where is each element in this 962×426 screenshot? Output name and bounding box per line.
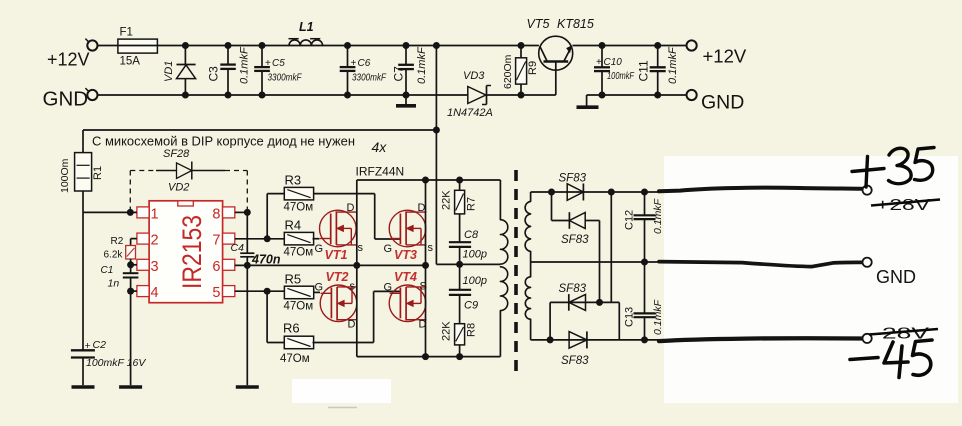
label SF83 D3 (559, 283, 587, 295)
svg-text:D: D (348, 319, 356, 331)
pin 8 box (223, 207, 235, 218)
label VT3 D (418, 202, 426, 214)
label C8 value (463, 248, 487, 260)
terminal GND out (863, 258, 872, 267)
junction C7 top (403, 42, 410, 49)
capacitor C5 (254, 46, 270, 96)
label R3 (285, 173, 302, 188)
svg-text:GND: GND (876, 267, 916, 287)
label C11 value (667, 46, 679, 84)
label R5 (285, 272, 302, 287)
label R9 (527, 61, 539, 75)
capacitor C6 (340, 46, 356, 96)
capacitor C4 (240, 212, 254, 265)
svg-text:SF83: SF83 (559, 173, 587, 185)
label L1 (299, 20, 314, 34)
diode D4 SF83 (569, 331, 587, 348)
svg-text:470n: 470n (251, 253, 281, 267)
svg-text:C4: C4 (231, 242, 245, 254)
wire pin1 to R1 column (83, 211, 137, 213)
label R6 (283, 321, 300, 336)
wire D3 left drop (549, 302, 551, 340)
svg-text:4: 4 (151, 285, 159, 301)
svg-text:C3: C3 (207, 66, 221, 82)
ground symbol C7 (396, 95, 416, 106)
junction +35 rail mid (608, 189, 615, 196)
wire hand-drawn GND (659, 262, 863, 267)
label VT3 (394, 248, 417, 262)
chip notch (178, 201, 194, 206)
svg-text:0.1mkF: 0.1mkF (667, 46, 679, 84)
junction C5 bottom (259, 92, 266, 99)
wire pin4 to ground (130, 291, 132, 385)
svg-text:s: s (358, 242, 364, 254)
label GND out (876, 267, 916, 287)
pin 1 number (151, 206, 159, 222)
label +12V output (703, 46, 747, 67)
label VT2 G (315, 282, 324, 294)
wire GND rail secondary (531, 261, 660, 263)
svg-text:GND: GND (43, 88, 89, 111)
junction C6 top (344, 42, 351, 49)
svg-text:100Om: 100Om (59, 158, 71, 193)
svg-text:VD1: VD1 (163, 61, 175, 82)
diode VD1 (177, 46, 196, 96)
svg-text:15A: 15A (120, 56, 141, 68)
label R1 (92, 166, 104, 180)
wire GND rail mid (487, 94, 556, 96)
svg-text:+12V: +12V (47, 49, 90, 69)
label SF28 (163, 148, 190, 160)
label VD1 (163, 61, 175, 82)
svg-text:100p: 100p (463, 248, 487, 260)
pin 4 box (137, 286, 149, 297)
junction VD1 bottom (182, 92, 189, 99)
svg-text:C13: C13 (624, 307, 636, 327)
label VD3 value (447, 107, 493, 119)
dashed box DIP (130, 171, 247, 213)
svg-text:100mkF: 100mkF (607, 71, 635, 82)
svg-text:R9: R9 (527, 61, 539, 75)
diode VD3 zener (468, 86, 491, 105)
label C2 (85, 339, 107, 352)
wire D2 branch (552, 192, 570, 221)
capacitor C8 (449, 242, 471, 264)
junction mid C8C9 (456, 261, 463, 268)
label VT3 G (384, 243, 393, 255)
svg-text:C1: C1 (101, 265, 114, 276)
junction VD1 top (182, 42, 189, 49)
label R4 value (284, 247, 314, 259)
svg-text:C8: C8 (464, 229, 479, 241)
label R7 value (441, 190, 453, 210)
white background patch bottom center (292, 379, 391, 408)
wire R1 feed line (83, 129, 436, 131)
svg-text:0.1mkF: 0.1mkF (652, 198, 664, 234)
wire +12V rail top (98, 45, 539, 47)
terminal +12V input (85, 39, 97, 51)
svg-text:R2: R2 (111, 236, 124, 247)
svg-text:4x: 4x (372, 139, 388, 155)
junction feed top (433, 42, 440, 49)
wire pin2 to R2 (131, 239, 137, 246)
label VT1 (325, 248, 348, 262)
wire pin4 row (131, 290, 137, 292)
label IRFZ44N (356, 165, 405, 179)
label R1 value (59, 158, 71, 193)
label C7 value (416, 46, 428, 84)
junction pin5 (264, 288, 271, 295)
pin 3 number (151, 259, 159, 275)
label C5 value (268, 73, 303, 84)
resistor R6 (284, 336, 313, 349)
svg-text:8: 8 (212, 206, 220, 222)
junction R9 bottom (518, 92, 525, 99)
junction C3 top (225, 42, 232, 49)
resistor R4 (284, 232, 313, 245)
svg-text:SF28: SF28 (163, 148, 190, 160)
label R9 value (502, 54, 514, 89)
wire pin7 row (235, 238, 284, 240)
label VD3 (463, 70, 485, 82)
label R6 value (280, 353, 310, 365)
wire pin5 row (235, 290, 285, 292)
junction VT3 source mid (422, 262, 429, 269)
label VT3 S (428, 242, 434, 254)
svg-text:D: D (347, 202, 355, 214)
label VT1 S (358, 242, 364, 254)
wire R3 riser (267, 194, 284, 239)
svg-text:С микосхемой в DIP корпусе дио: С микосхемой в DIP корпусе диод не нужен (92, 135, 355, 149)
junction C4 bottom (244, 262, 251, 269)
wire R5 to VT2 gate (314, 291, 320, 293)
diode D1 SF83 (567, 184, 583, 201)
svg-text:s: s (428, 242, 434, 254)
junction C6 bottom (344, 92, 351, 99)
label VT4 S (420, 281, 427, 293)
svg-text:R4: R4 (285, 218, 302, 233)
svg-text:C6: C6 (358, 58, 371, 69)
label VT4 D (419, 319, 427, 331)
svg-text:R7: R7 (466, 197, 478, 211)
junction rail A VT3 (422, 177, 429, 184)
pin 7 box (223, 233, 235, 244)
svg-text:s: s (350, 281, 356, 293)
junction C11 bottom (654, 92, 661, 99)
ground symbol C2 (72, 385, 95, 389)
svg-text:D: D (418, 202, 426, 214)
terminal GND output top (687, 90, 697, 100)
label C5 (265, 58, 285, 69)
wire VT1 VT2 vertical (356, 180, 358, 357)
pin 8 number (212, 206, 220, 222)
label VT1 G (315, 243, 324, 255)
label C9 (464, 300, 478, 312)
wire hand-drawn +35 (659, 188, 862, 192)
label C3 (207, 66, 221, 82)
svg-text:0.1mkF: 0.1mkF (416, 46, 428, 84)
resistor R3 (284, 187, 313, 200)
transistor VT5 (539, 36, 573, 95)
svg-text:SF83: SF83 (561, 234, 589, 246)
svg-text:47Ом: 47Ом (284, 247, 314, 259)
label C3 value (239, 46, 251, 84)
svg-text:620Om: 620Om (502, 54, 514, 89)
junction pin1 dashed box (127, 209, 134, 216)
transformer secondary winding 1 (525, 192, 531, 262)
transformer primary winding (500, 220, 507, 311)
svg-text:VT1: VT1 (325, 248, 348, 262)
note text DIP (92, 135, 355, 149)
pin 5 number (212, 285, 220, 301)
svg-text:G: G (315, 243, 324, 255)
pin 5 box (223, 286, 235, 297)
svg-text:5: 5 (212, 285, 220, 301)
wire D3 line (550, 301, 619, 303)
svg-text:VT2: VT2 (326, 270, 349, 284)
transistor VT1 (320, 210, 357, 247)
label +12V input (47, 49, 90, 69)
wire rail A (357, 179, 501, 181)
svg-text:GND: GND (701, 92, 744, 114)
label C9 value (463, 275, 487, 287)
label C1 value (108, 278, 120, 290)
label VT2 (326, 270, 349, 284)
svg-text:IR2153: IR2153 (177, 215, 207, 289)
wire -45 rail (531, 339, 661, 341)
label C12 value (652, 198, 664, 234)
svg-text:C5: C5 (272, 58, 285, 69)
wire D2 to D3 vertical (599, 221, 601, 303)
svg-text:+: + (85, 340, 91, 352)
inductor L1 (289, 39, 323, 46)
resistor R9 (516, 46, 527, 96)
ground symbol pin6 column (236, 385, 259, 389)
label R3 value (284, 202, 314, 214)
label C6 value (352, 73, 387, 84)
wire +35 rail (531, 191, 661, 193)
diode VD2 (156, 162, 225, 180)
label 4x (372, 139, 388, 155)
label VT2 S (350, 281, 356, 293)
label VD2 (168, 182, 189, 194)
ground symbol aux (577, 95, 599, 107)
transistor VT3 (389, 210, 426, 247)
diode D2 SF83 (569, 212, 599, 229)
svg-text:C9: C9 (464, 300, 478, 312)
wire pin8 (235, 211, 248, 213)
pin 1 box (137, 207, 149, 218)
label C7 (392, 66, 406, 82)
label R8 value (441, 321, 453, 341)
svg-text:6.2k: 6.2k (104, 250, 124, 261)
label VT2 D (348, 319, 356, 331)
junction C3 bottom (225, 92, 232, 99)
transistor VT4 (389, 285, 426, 322)
svg-text:C7: C7 (392, 66, 406, 82)
svg-text:0.1mkF: 0.1mkF (652, 299, 664, 335)
wire GND rail right (587, 94, 687, 96)
junction GND rail C12 (641, 259, 648, 266)
label C1 (101, 265, 114, 276)
terminal +12V output (687, 40, 697, 50)
wire R4 to VT1 gate (313, 238, 320, 240)
svg-text:VD3: VD3 (463, 70, 485, 82)
label 15A (120, 56, 141, 68)
label VT5 (527, 17, 550, 31)
label GND output top (701, 92, 744, 114)
svg-text:KT815: KT815 (557, 17, 594, 31)
label SF83 D4 (561, 355, 589, 367)
capacitor C10 (594, 46, 610, 96)
svg-text:47Ом: 47Ом (284, 301, 314, 313)
junction C10 bottom (599, 92, 606, 99)
label VT4 (394, 270, 417, 284)
wire rail A drop to primary (499, 180, 501, 220)
svg-text:R8: R8 (466, 323, 478, 337)
junction pin7 (264, 235, 271, 242)
pin 2 box (137, 233, 149, 244)
transformer core (514, 170, 518, 372)
svg-text:2: 2 (151, 233, 159, 249)
label 470n (251, 253, 281, 267)
label R4 (285, 218, 302, 233)
pin 3 box (137, 259, 149, 270)
capacitor C12 (634, 192, 656, 262)
label C10 (596, 57, 622, 68)
label F1 (120, 27, 133, 39)
op-amp U1 IR2153 body (149, 201, 223, 303)
svg-text:G: G (384, 243, 393, 255)
svg-text:G: G (315, 282, 324, 294)
svg-text:100mkF 16V: 100mkF 16V (86, 357, 146, 369)
svg-text:+12V: +12V (703, 46, 747, 67)
label SF83 D2 (561, 234, 589, 246)
wire bottom rail rise to primary (499, 311, 501, 357)
wire VT3 VT4 vertical (425, 180, 427, 357)
junction D3 line (596, 299, 603, 306)
terminal -45 (863, 334, 872, 343)
svg-text:1N4742A: 1N4742A (447, 107, 493, 119)
wire +12V vertical feed (435, 46, 437, 265)
wire +35 to D3 vertical (610, 192, 612, 302)
wire +12V rail top right (573, 45, 687, 47)
label R2 value (104, 250, 124, 261)
pin 6 box (223, 259, 235, 270)
label +28V struck (871, 197, 940, 214)
label R8 (466, 323, 478, 337)
label C8 (464, 229, 479, 241)
wire D3 right drop (618, 302, 620, 340)
junction bottom rail R8 (456, 353, 463, 360)
junction R9 top (518, 42, 525, 49)
resistor R1 (75, 130, 92, 350)
capacitor C2 (71, 350, 95, 385)
junction pin8 (244, 209, 251, 216)
pin 6 number (212, 259, 220, 275)
junction -45 rail C13 (641, 336, 648, 343)
label KT815 (557, 17, 594, 31)
svg-text:7: 7 (212, 233, 220, 249)
wire bottom rail (357, 356, 501, 358)
svg-text:3: 3 (151, 259, 159, 275)
terminal +35 (863, 186, 872, 195)
wire pin6 column to ground (246, 265, 248, 385)
svg-text:47Ом: 47Ом (280, 353, 310, 365)
label C11 (637, 60, 651, 81)
junction D1 anode (548, 189, 555, 196)
label R5 value (284, 301, 314, 313)
svg-text:VT4: VT4 (394, 270, 417, 284)
label GND input (43, 88, 89, 111)
label C4 (231, 242, 245, 254)
svg-text:C2: C2 (93, 339, 107, 351)
capacitor C11 (650, 46, 666, 96)
svg-text:IRFZ44N: IRFZ44N (356, 165, 405, 179)
junction C10 top (599, 42, 606, 49)
junction +35 rail C12 (641, 189, 648, 196)
svg-text:R5: R5 (285, 272, 302, 287)
label C12 (624, 210, 636, 230)
junction C7 bottom (403, 92, 410, 99)
wire hand-drawn -45 (659, 338, 862, 341)
ground symbol pin4 (119, 385, 142, 389)
label VT4 G (384, 282, 393, 294)
wire R3 to VT3 gate (314, 194, 401, 239)
transformer secondary winding 2 (525, 262, 530, 340)
junction pin3 (127, 261, 134, 268)
handwritten -45 (850, 340, 932, 378)
junction pin4 (127, 288, 134, 295)
wire pin6 bus (235, 264, 426, 266)
svg-text:+: + (351, 58, 357, 69)
svg-text:R6: R6 (283, 321, 300, 336)
label R2 (111, 236, 124, 247)
label SF83 D1 (559, 173, 587, 185)
svg-text:+: + (265, 58, 271, 69)
junction rail A R7 (456, 177, 463, 184)
junction bottom rail VT4 (422, 353, 429, 360)
wire R6 riser (267, 291, 284, 342)
label C10 value (607, 71, 635, 82)
svg-text:C11: C11 (637, 60, 651, 81)
label C6 (351, 58, 371, 69)
label C13 value (652, 299, 664, 335)
svg-text:1n: 1n (108, 278, 120, 290)
svg-text:47Ом: 47Ом (284, 202, 314, 214)
svg-text:VT5: VT5 (527, 17, 550, 31)
resistor R8 (455, 324, 465, 357)
resistor R7 (455, 180, 465, 242)
svg-text:22K: 22K (441, 321, 453, 341)
fuse F1 (118, 39, 157, 53)
svg-text:VD2: VD2 (168, 182, 189, 194)
junction -45 rail D3 (547, 336, 554, 343)
handwritten +35 (852, 148, 934, 188)
junction feed R1 line (433, 127, 440, 134)
svg-text:1: 1 (151, 206, 159, 222)
white background patch over output area (664, 156, 958, 403)
capacitor C1 (123, 265, 139, 291)
capacitor C7 (398, 46, 414, 96)
svg-text:100p: 100p (463, 275, 487, 287)
wire GND rail (98, 94, 468, 96)
svg-text:F1: F1 (120, 27, 133, 39)
junction C5 top (259, 42, 266, 49)
junction C11 top (654, 42, 661, 49)
label C13 (624, 307, 636, 327)
svg-text:C10: C10 (604, 57, 623, 68)
